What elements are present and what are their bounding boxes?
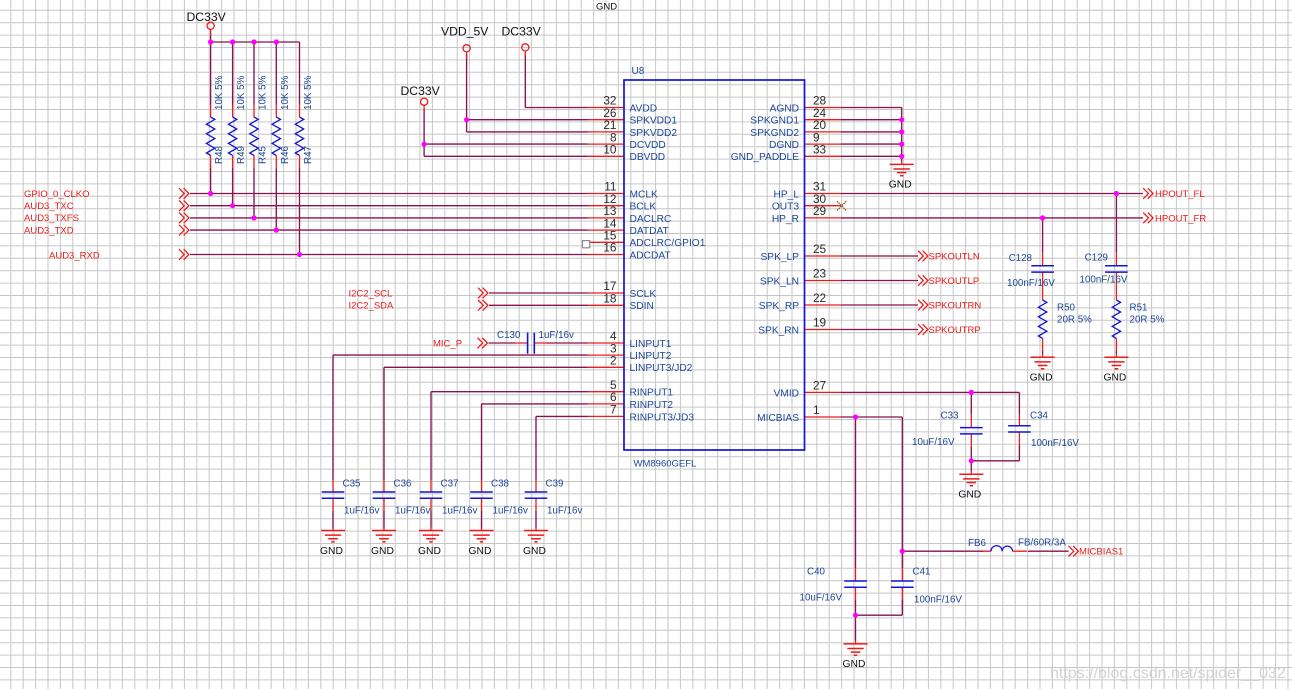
- svg-text:100nF/16V: 100nF/16V: [1080, 275, 1128, 286]
- svg-text:1uF/16v: 1uF/16v: [395, 505, 431, 516]
- svg-text:GND: GND: [371, 546, 394, 557]
- svg-text:OUT3: OUT3: [772, 202, 800, 213]
- svg-text:GPIO_0_CLKO: GPIO_0_CLKO: [24, 189, 89, 200]
- svg-text:SPKOUTRP: SPKOUTRP: [929, 325, 981, 336]
- svg-text:SPK_RP: SPK_RP: [759, 301, 799, 312]
- svg-text:I2C2_SDA: I2C2_SDA: [349, 301, 395, 312]
- svg-text:7: 7: [610, 403, 617, 417]
- svg-text:LINPUT1: LINPUT1: [630, 339, 672, 350]
- svg-text:C40: C40: [807, 567, 826, 578]
- svg-text:AVDD: AVDD: [630, 103, 658, 114]
- svg-text:R48: R48: [214, 145, 225, 164]
- svg-text:WM8960GEFL: WM8960GEFL: [634, 459, 697, 470]
- svg-text:29: 29: [813, 204, 826, 218]
- svg-text:AUD3_TXFS: AUD3_TXFS: [24, 213, 79, 224]
- svg-text:C128: C128: [1009, 253, 1033, 264]
- svg-text:HP_R: HP_R: [772, 214, 799, 225]
- svg-text:RINPUT2: RINPUT2: [630, 400, 674, 411]
- svg-text:GND: GND: [958, 490, 981, 501]
- svg-text:10K 5%: 10K 5%: [236, 75, 247, 110]
- svg-text:DGND: DGND: [769, 140, 799, 151]
- svg-text:https://blog.csdn.net/spider__: https://blog.csdn.net/spider__032: [1050, 665, 1286, 682]
- svg-text:DC33V: DC33V: [187, 10, 227, 24]
- svg-text:20R 5%: 20R 5%: [1130, 315, 1165, 326]
- svg-text:HPOUT_FR: HPOUT_FR: [1155, 213, 1206, 224]
- svg-text:MCLK: MCLK: [630, 189, 659, 200]
- svg-text:MIC_P: MIC_P: [433, 338, 462, 349]
- svg-text:1uF/16v: 1uF/16v: [539, 330, 575, 341]
- svg-text:AGND: AGND: [770, 103, 799, 114]
- svg-text:RINPUT1: RINPUT1: [630, 388, 674, 399]
- svg-text:HPOUT_FL: HPOUT_FL: [1155, 189, 1205, 200]
- svg-text:AUD3_TXC: AUD3_TXC: [24, 201, 74, 212]
- svg-text:DC33V: DC33V: [401, 84, 441, 98]
- svg-text:SPKGND2: SPKGND2: [750, 128, 799, 139]
- svg-text:C41: C41: [913, 566, 931, 577]
- svg-text:SPKOUTLN: SPKOUTLN: [929, 251, 980, 262]
- svg-text:HP_L: HP_L: [774, 189, 800, 200]
- svg-text:U8: U8: [632, 66, 645, 77]
- svg-text:23: 23: [813, 267, 827, 281]
- svg-text:1uF/16v: 1uF/16v: [344, 505, 380, 516]
- svg-text:RINPUT3/JD3: RINPUT3/JD3: [630, 412, 695, 423]
- svg-text:R46: R46: [280, 145, 291, 164]
- svg-text:R45: R45: [258, 145, 269, 164]
- svg-text:10uF/16V: 10uF/16V: [800, 592, 843, 603]
- svg-text:25: 25: [813, 242, 827, 256]
- svg-text:R51: R51: [1130, 303, 1148, 314]
- svg-text:100nF/16V: 100nF/16V: [914, 594, 962, 605]
- svg-text:C35: C35: [343, 478, 362, 489]
- svg-text:C38: C38: [491, 478, 510, 489]
- svg-text:C130: C130: [497, 330, 521, 341]
- svg-text:ADCDAT: ADCDAT: [630, 250, 671, 261]
- svg-text:MICBIAS1: MICBIAS1: [1079, 547, 1123, 558]
- svg-text:DC33V: DC33V: [502, 25, 542, 39]
- svg-text:SCLK: SCLK: [630, 289, 657, 300]
- svg-text:GND_PADDLE: GND_PADDLE: [731, 152, 800, 163]
- svg-text:SPK_LN: SPK_LN: [760, 276, 799, 287]
- svg-text:GND: GND: [320, 546, 343, 557]
- svg-text:DCVDD: DCVDD: [630, 140, 666, 151]
- svg-text:100nF/16V: 100nF/16V: [1007, 278, 1055, 289]
- svg-text:GND: GND: [469, 546, 492, 557]
- svg-text:I2C2_SCL: I2C2_SCL: [349, 288, 393, 299]
- svg-text:BCLK: BCLK: [630, 202, 657, 213]
- svg-text:1uF/16v: 1uF/16v: [442, 505, 478, 516]
- svg-text:1uF/16v: 1uF/16v: [547, 505, 583, 516]
- svg-text:10K 5%: 10K 5%: [258, 75, 269, 110]
- svg-text:10: 10: [603, 143, 617, 157]
- svg-text:18: 18: [603, 292, 617, 306]
- svg-text:R47: R47: [303, 146, 314, 164]
- svg-text:19: 19: [813, 316, 826, 330]
- svg-text:SPKVDD1: SPKVDD1: [630, 116, 678, 127]
- svg-text:DBVDD: DBVDD: [630, 152, 666, 163]
- svg-text:SPKOUTLP: SPKOUTLP: [929, 276, 980, 287]
- svg-text:SPK_RN: SPK_RN: [758, 325, 799, 336]
- svg-text:SPKOUTRN: SPKOUTRN: [929, 300, 982, 311]
- svg-text:C36: C36: [394, 478, 413, 489]
- svg-text:DATDAT: DATDAT: [630, 226, 669, 237]
- svg-text:SPKGND1: SPKGND1: [750, 116, 799, 127]
- svg-text:2: 2: [610, 354, 617, 368]
- svg-text:GND: GND: [523, 546, 546, 557]
- svg-text:MICBIAS: MICBIAS: [757, 413, 799, 424]
- svg-text:100nF/16V: 100nF/16V: [1031, 438, 1079, 449]
- svg-text:16: 16: [603, 241, 617, 255]
- svg-text:10K 5%: 10K 5%: [214, 75, 225, 110]
- svg-text:22: 22: [813, 291, 826, 305]
- svg-text:AUD3_TXD: AUD3_TXD: [24, 225, 74, 236]
- svg-text:SDIN: SDIN: [630, 301, 654, 312]
- svg-text:GND: GND: [889, 180, 912, 191]
- svg-text:C129: C129: [1085, 253, 1108, 264]
- svg-text:1uF/16v: 1uF/16v: [493, 505, 529, 516]
- svg-text:R50: R50: [1057, 303, 1076, 314]
- svg-text:GND: GND: [843, 659, 866, 670]
- svg-text:C37: C37: [441, 478, 459, 489]
- svg-text:FB/60R/3A: FB/60R/3A: [1018, 537, 1066, 548]
- svg-text:GND: GND: [1030, 373, 1053, 384]
- svg-text:GND: GND: [1103, 373, 1126, 384]
- svg-text:GND: GND: [596, 2, 617, 13]
- svg-text:GND: GND: [418, 546, 441, 557]
- svg-text:10K 5%: 10K 5%: [280, 75, 291, 110]
- svg-text:33: 33: [813, 143, 827, 157]
- svg-text:C33: C33: [941, 410, 960, 421]
- svg-text:LINPUT2: LINPUT2: [630, 351, 672, 362]
- svg-text:DACLRC: DACLRC: [630, 214, 672, 225]
- svg-text:LINPUT3/JD2: LINPUT3/JD2: [630, 363, 693, 374]
- svg-text:SPK_LP: SPK_LP: [760, 252, 799, 263]
- svg-text:FB6: FB6: [968, 538, 987, 549]
- svg-text:VDD_5V: VDD_5V: [441, 25, 489, 39]
- svg-text:C34: C34: [1030, 410, 1049, 421]
- svg-text:VMID: VMID: [774, 388, 799, 399]
- svg-text:20R 5%: 20R 5%: [1057, 315, 1092, 326]
- svg-text:ADCLRC/GPIO1: ADCLRC/GPIO1: [630, 238, 706, 249]
- svg-text:C39: C39: [546, 478, 564, 489]
- svg-text:SPKVDD2: SPKVDD2: [630, 128, 678, 139]
- svg-text:R49: R49: [236, 146, 247, 164]
- svg-text:10K 5%: 10K 5%: [303, 75, 314, 110]
- svg-text:AUD3_RXD: AUD3_RXD: [49, 250, 100, 261]
- svg-text:10uF/16V: 10uF/16V: [912, 437, 955, 448]
- svg-text:27: 27: [813, 379, 826, 393]
- svg-text:1: 1: [813, 403, 820, 417]
